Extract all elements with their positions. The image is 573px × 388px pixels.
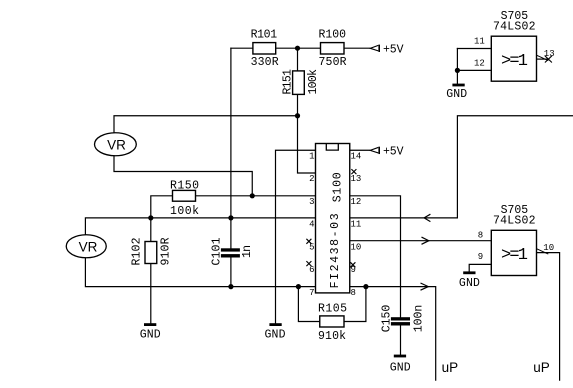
VR source VR1 [95, 133, 137, 156]
wire R105 left lead [298, 287, 319, 322]
svg-text:2: 2 [309, 174, 314, 184]
svg-text:S100: S100 [332, 172, 345, 202]
svg-text:+5V: +5V [383, 44, 404, 57]
gate1 output no-connect x [545, 56, 552, 63]
gnd symbol gate2 pin9 [459, 271, 480, 289]
IC U1 FI2438-03 box [316, 144, 350, 293]
svg-text:5: 5 [309, 242, 314, 252]
VR source VR2 [66, 235, 106, 258]
resistor R150 [170, 179, 199, 218]
wire IC pin2 up to node [298, 116, 316, 173]
svg-text:uP: uP [442, 360, 459, 375]
svg-text:FI2438-03: FI2438-03 [329, 213, 342, 288]
no-connect x pin 9 [350, 262, 355, 267]
wire row 287 (VR2 bottom to IC pin 7) [85, 258, 315, 287]
wire IC pin10 row to gate2 pin8 [350, 240, 492, 242]
svg-text:GND: GND [446, 88, 467, 101]
wire R101 leads [231, 47, 370, 49]
arrow left on pin11 net [424, 214, 430, 221]
no-connect x pin 6 [306, 261, 311, 266]
wire gate1 gnd stub [456, 70, 458, 83]
gnd symbol gate1 [446, 84, 467, 101]
wire IC pin8 row to uP [350, 287, 436, 381]
svg-text:VR: VR [107, 137, 126, 152]
svg-text:3: 3 [309, 197, 314, 207]
wire VR1 bottom to pin3 junction [114, 156, 252, 196]
svg-text:330R: 330R [251, 56, 279, 69]
wire gate1 pin11 input [457, 48, 491, 50]
junction node R150/R102 row218 [148, 215, 153, 220]
svg-text:100k: 100k [307, 69, 320, 95]
wire R105 right lead [344, 287, 366, 322]
svg-text:14: 14 [351, 151, 362, 161]
resistor R100 [319, 29, 347, 70]
svg-text:4: 4 [309, 220, 314, 230]
arrow right on pin10 net [422, 237, 429, 244]
resistor R151 [281, 69, 320, 95]
junction node VR1top/R151/pin2 [295, 113, 300, 118]
svg-text:R151: R151 [281, 69, 294, 95]
svg-text:7: 7 [309, 288, 314, 298]
wire gate1 input tie [456, 49, 458, 71]
svg-text:1n: 1n [241, 245, 254, 258]
svg-text:uP: uP [533, 360, 550, 375]
junction node C101bot row287 [228, 284, 233, 289]
wire row 218 (VR2 top to IC pin 4) [85, 218, 315, 235]
svg-text:10: 10 [543, 243, 554, 253]
svg-text:>=1: >=1 [501, 246, 528, 265]
junction node VR1bot/R150/pin3 [250, 193, 255, 198]
wire R101 left lead down through C101 top [230, 48, 232, 248]
svg-text:910k: 910k [318, 330, 346, 343]
junction node C101top row218 [228, 215, 233, 220]
no-connect x pin 13 [351, 169, 356, 174]
svg-text:9: 9 [478, 252, 483, 262]
svg-text:74LS02: 74LS02 [493, 215, 536, 228]
svg-text:11: 11 [474, 36, 485, 46]
no-connect x pin 5 [306, 239, 311, 244]
wire gate1 pin12 input [457, 69, 491, 71]
junction node gate1 inputs gnd [455, 68, 460, 73]
wire C101 bottom [230, 258, 232, 287]
svg-text:GND: GND [459, 277, 480, 290]
svg-text:C101: C101 [211, 237, 224, 265]
arrow right on pin8 net [421, 283, 429, 290]
svg-text:R102: R102 [130, 237, 143, 265]
gate U2B 74LS02 box [491, 204, 536, 276]
svg-text:13: 13 [544, 49, 555, 59]
svg-text:GND: GND [390, 362, 411, 375]
svg-text:8: 8 [478, 230, 483, 240]
svg-text:100k: 100k [170, 205, 199, 218]
svg-text:910R: 910R [159, 237, 172, 265]
svg-text:6: 6 [309, 265, 314, 275]
svg-text:GND: GND [140, 328, 161, 341]
svg-text:8: 8 [351, 288, 356, 298]
gate U2A 74LS02 box [491, 10, 536, 81]
wire R151 bottom lead [297, 94, 299, 115]
wire IC pin11 row up and off right [350, 116, 573, 218]
wire VR1 top to R151 bottom node [114, 116, 298, 133]
svg-text:13: 13 [351, 174, 362, 184]
svg-text:>=1: >=1 [501, 52, 528, 71]
svg-text:74LS02: 74LS02 [493, 21, 536, 34]
svg-text:R101: R101 [251, 29, 278, 42]
svg-text:R150: R150 [170, 179, 199, 192]
resistor R102 [130, 237, 172, 265]
svg-text:+5V: +5V [383, 146, 404, 159]
svg-text:C150: C150 [381, 305, 394, 333]
svg-text:100n: 100n [412, 305, 425, 333]
svg-text:1: 1 [309, 151, 314, 161]
gnd symbol C150 [390, 355, 411, 375]
svg-text:12: 12 [351, 197, 362, 207]
wire R151 top lead [297, 48, 299, 71]
junction node R105 left row287 [296, 284, 301, 289]
svg-text:VR: VR [79, 239, 98, 254]
wire gate1 output stub [537, 58, 549, 60]
+5V supply top [370, 44, 403, 57]
wire IC pin12 row down to C150 [350, 196, 401, 317]
svg-text:R105: R105 [318, 303, 347, 316]
wire C150 bottom to GND [400, 326, 402, 355]
wire gate2 pin9 gnd stub [469, 264, 491, 271]
wire R102 bottom to GND [150, 264, 152, 324]
junction node R101/R100/R151 [295, 46, 300, 51]
gate1 output inversion wedge [537, 55, 549, 60]
capacitor C150 [381, 305, 426, 333]
wire R150 left lead down to row 218 [151, 196, 173, 218]
svg-text:10: 10 [351, 242, 362, 252]
svg-text:GND: GND [265, 328, 286, 341]
wire IC pin14 to +5V [350, 149, 370, 151]
wire R102 top lead [150, 218, 152, 242]
gnd symbol pin1 net [265, 323, 286, 341]
svg-text:750R: 750R [319, 56, 347, 69]
svg-text:R100: R100 [319, 29, 347, 42]
resistor R101 [251, 29, 279, 70]
wire IC pin1 to GND [276, 150, 316, 323]
gate2 output inversion wedge [537, 249, 549, 254]
wire gate2 output to uP [537, 253, 560, 381]
resistor R105 [318, 303, 347, 344]
+5V supply pin14 [370, 146, 403, 159]
capacitor C101 [211, 237, 254, 265]
wire pin3 row (R150 right to IC pin 3) [196, 195, 316, 197]
junction node R105 right row287 [363, 284, 368, 289]
svg-text:12: 12 [474, 58, 485, 68]
svg-text:11: 11 [351, 220, 362, 230]
gnd symbol R102 [140, 323, 161, 341]
